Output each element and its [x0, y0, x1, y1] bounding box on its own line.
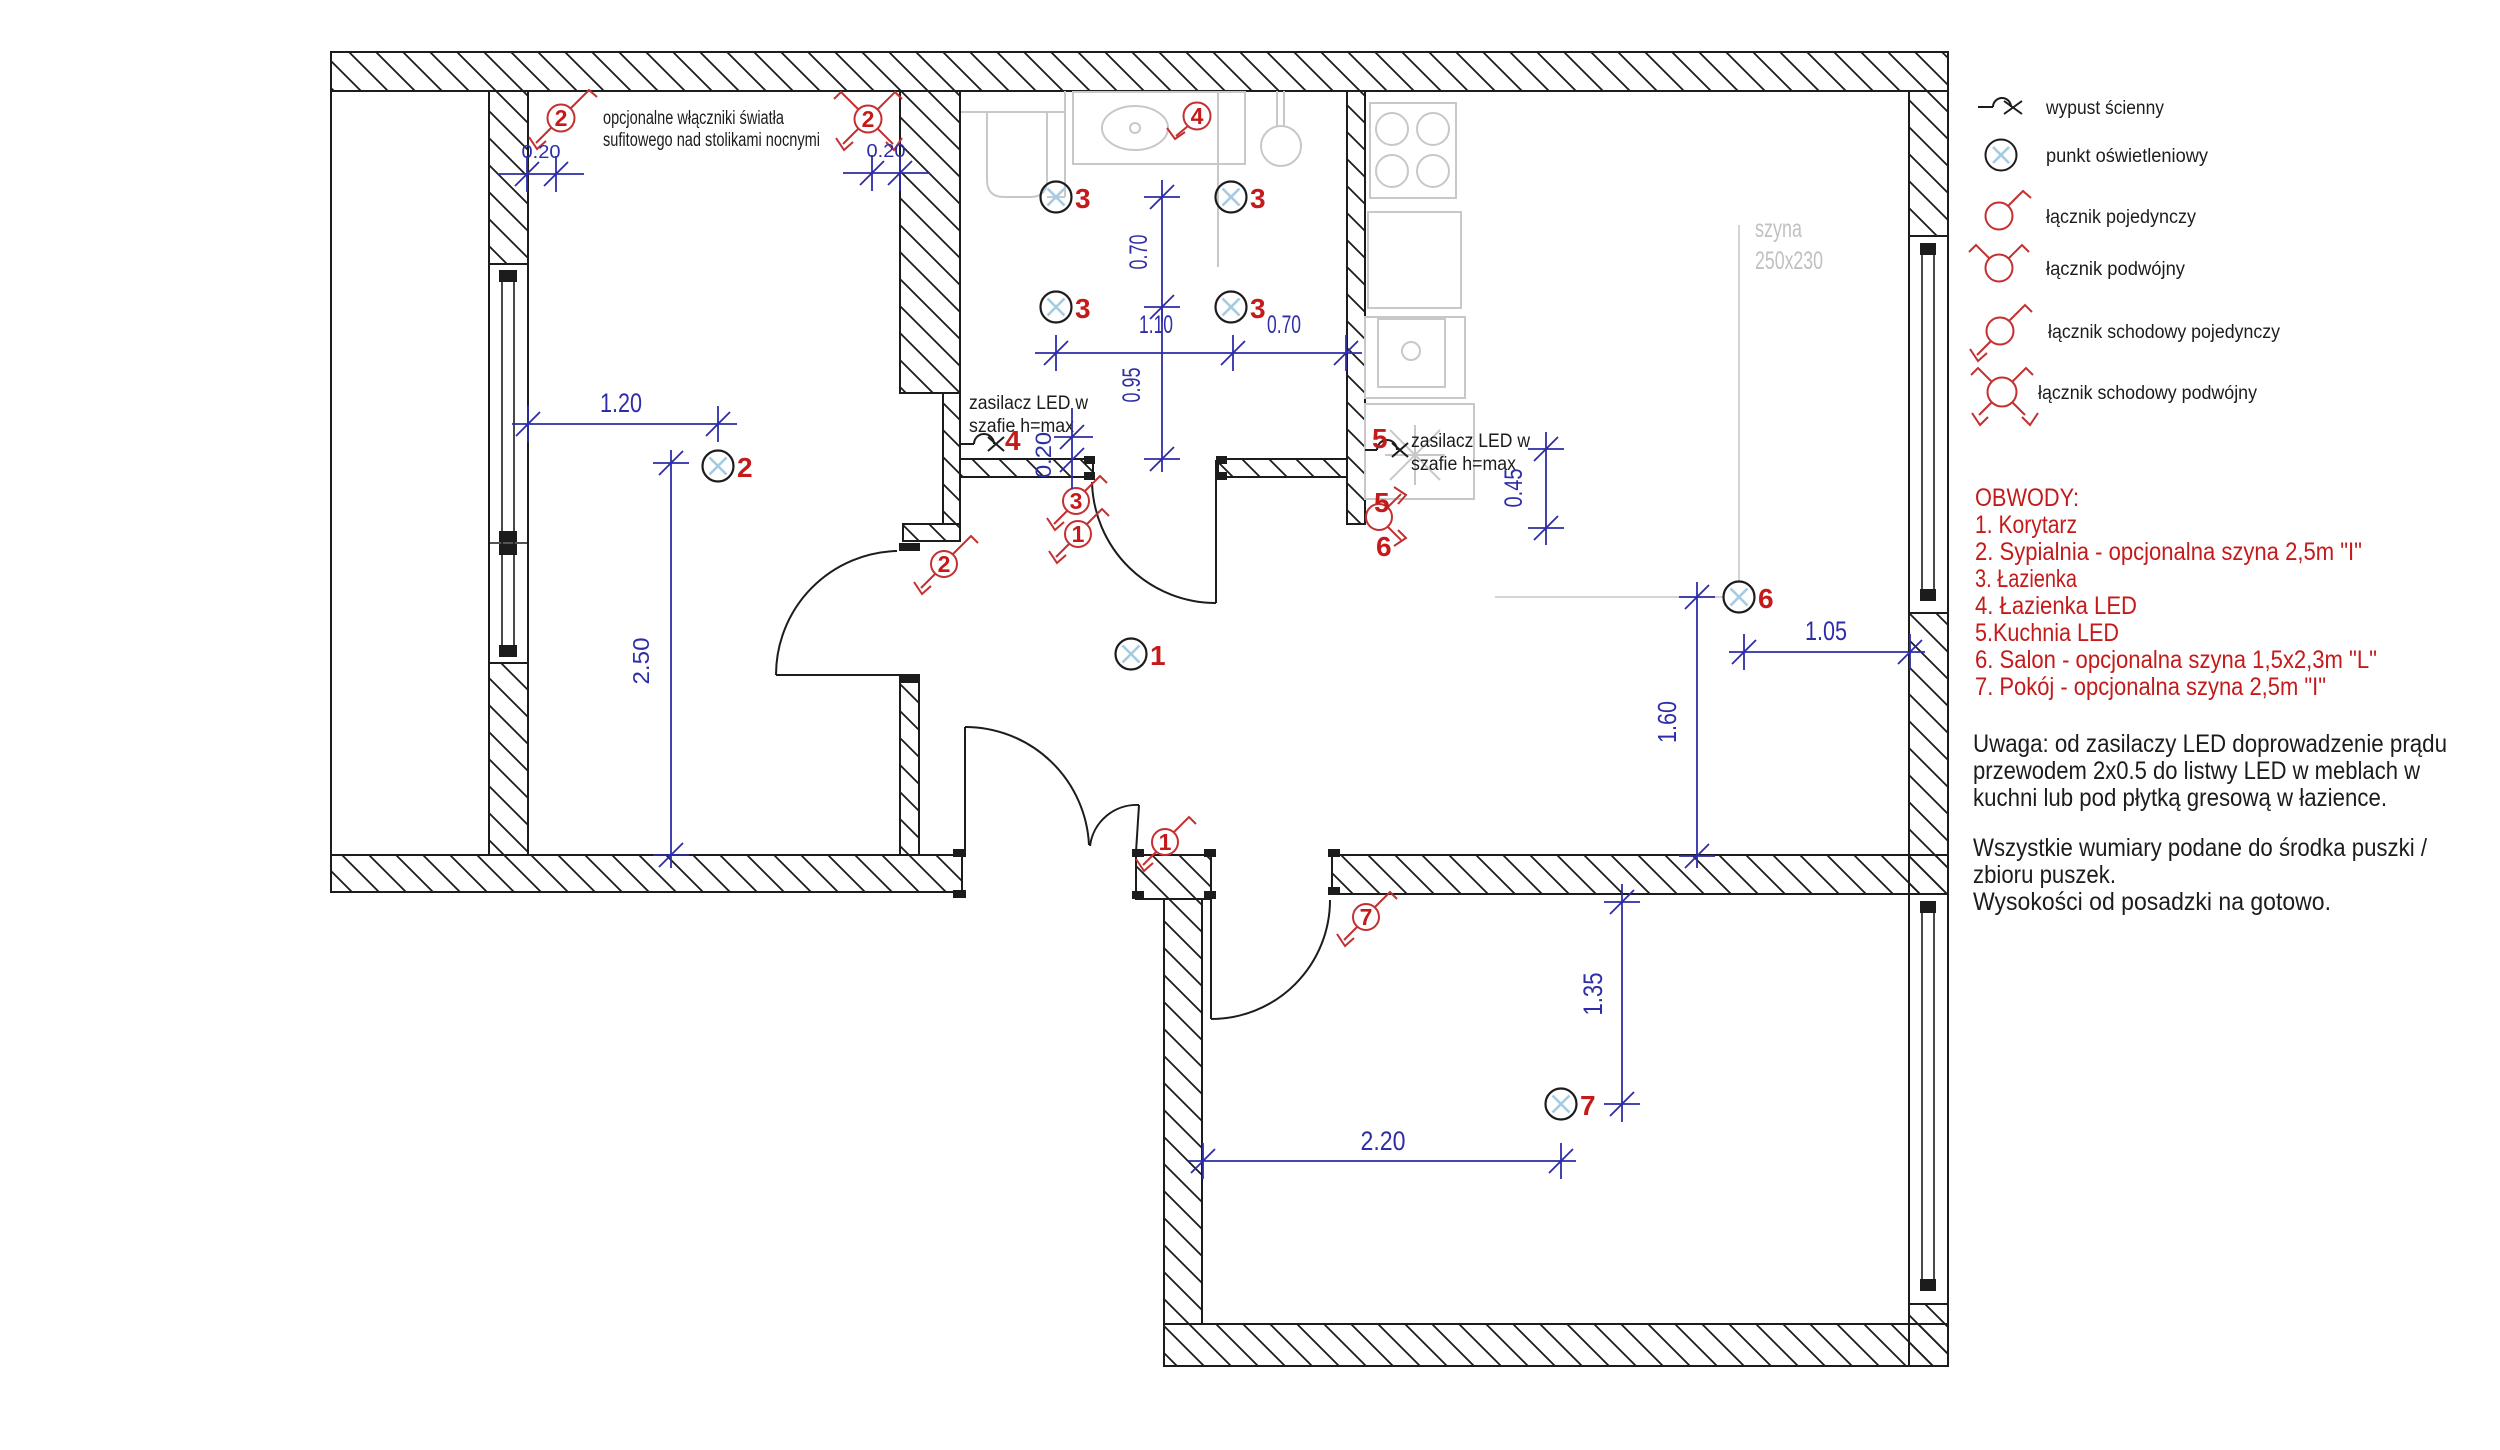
light 1 corridor	[1116, 639, 1147, 670]
light 2 bedroom	[703, 451, 734, 482]
svg-text:0.70: 0.70	[1267, 311, 1301, 339]
hob burner 4	[1417, 155, 1449, 187]
OBWODY red list	[1975, 484, 2377, 701]
legend wypust symbol	[1978, 106, 1993, 108]
wall bedroom step	[903, 524, 960, 541]
light 3 bathroom c	[1041, 292, 1072, 323]
dim 1.35 pokoj vertical	[1604, 884, 1640, 1122]
kitchen lower cabinet	[1365, 404, 1474, 499]
toilet cistern	[961, 91, 1065, 197]
light X 3a	[1048, 189, 1065, 206]
legend punkt symbol	[1986, 140, 2017, 171]
svg-text:3. Łazienka: 3. Łazienka	[1975, 565, 2077, 593]
jamb bedroom door bottom	[899, 675, 920, 683]
wall bathroom bottom left	[960, 459, 1093, 477]
svg-text:7: 7	[1580, 1090, 1596, 1121]
svg-text:3: 3	[1250, 293, 1266, 324]
light X 3c	[1048, 299, 1065, 316]
outer boundary left line	[330, 52, 332, 892]
WINDOWS	[489, 236, 1948, 1304]
svg-text:łącznik schodowy podwójny: łącznik schodowy podwójny	[2038, 383, 2257, 404]
door corridor small leaf	[1136, 805, 1139, 852]
light 3 bathroom b	[1216, 182, 1247, 213]
svg-text:OBWODY:: OBWODY:	[1975, 484, 2079, 512]
wall bedroom right narrow	[943, 393, 960, 524]
switch 7 pokoj	[1337, 892, 1397, 946]
hob burner 2	[1417, 113, 1449, 145]
dim 1.60 salon vertical	[1679, 582, 1715, 868]
svg-text:0.20: 0.20	[867, 141, 906, 161]
szyna rail L	[1495, 225, 1739, 597]
svg-text:2: 2	[737, 452, 753, 483]
BLACK ANNOTATION TEXTS	[603, 108, 1530, 475]
shower partition line	[1217, 91, 1219, 267]
svg-text:7: 7	[1360, 904, 1373, 930]
wall corridor thin	[900, 675, 919, 855]
kitchen hob rect	[1370, 103, 1456, 198]
kitchen cabinet	[1368, 212, 1461, 308]
svg-text:zbioru puszek.: zbioru puszek.	[1973, 861, 2116, 889]
svg-text:łącznik pojedynczy: łącznik pojedynczy	[2046, 207, 2196, 228]
light 3 bathroom a	[1041, 182, 1072, 213]
svg-text:4. Łazienka LED: 4. Łazienka LED	[1975, 592, 2137, 620]
kitchen sink inner	[1378, 319, 1445, 387]
dim 1.20 line	[512, 406, 737, 442]
svg-text:2.50: 2.50	[628, 638, 654, 685]
svg-text:2: 2	[862, 106, 875, 132]
jamb corridor piece right	[1204, 849, 1216, 857]
switch 2 at bedroom door (schodowy pojedynczy)	[914, 536, 978, 594]
svg-text:0.45: 0.45	[1500, 469, 1528, 508]
dim 0.95 bath vertical	[1144, 307, 1180, 472]
svg-text:2.20: 2.20	[1361, 1126, 1406, 1156]
dim 0.20 bedroom left line	[498, 156, 584, 192]
wall bedroom right wide	[900, 91, 960, 393]
szyna text	[1755, 215, 1823, 275]
svg-text:1: 1	[1150, 640, 1166, 671]
svg-text:Uwaga: od zasilaczy LED doprow: Uwaga: od zasilaczy LED doprowadzenie pr…	[1973, 730, 2447, 758]
legend lacznik schodowy pojedynczy	[1987, 318, 2014, 345]
wall piece corridor	[1136, 855, 1211, 899]
DOORS	[776, 460, 1330, 1019]
jamb bathroom door right	[1216, 456, 1227, 464]
svg-text:sufitowego nad stolikami nocny: sufitowego nad stolikami nocnymi	[603, 130, 820, 151]
wall salon bottom band	[1332, 855, 1948, 894]
svg-text:250x230: 250x230	[1755, 247, 1823, 275]
jamb bathroom door left	[1084, 456, 1095, 464]
svg-text:1. Korytarz: 1. Korytarz	[1975, 511, 2077, 539]
wall pokoj bottom	[1164, 1324, 1948, 1366]
BLUE DIMENSIONS	[498, 155, 1925, 1179]
legend lacznik schodowy podwojny	[1988, 378, 2017, 407]
svg-text:6: 6	[1376, 531, 1392, 562]
door bathroom leaf	[1215, 460, 1217, 603]
svg-text:1.05: 1.05	[1805, 616, 1847, 646]
red circled numbers text	[555, 103, 1373, 930]
svg-text:1.10: 1.10	[1139, 311, 1173, 339]
svg-text:0.20: 0.20	[1031, 432, 1056, 478]
svg-text:3: 3	[1070, 488, 1083, 514]
washbasin counter	[1073, 92, 1245, 164]
door bedroom leaf	[776, 674, 900, 676]
switch 1 corridor (pojedynczy)	[1049, 509, 1109, 563]
WALLS	[331, 52, 1948, 1366]
svg-text:1.20: 1.20	[600, 388, 642, 418]
svg-text:7. Pokój - opcjonalna szyna 2,: 7. Pokój - opcjonalna szyna 2,5m "I"	[1975, 673, 2326, 701]
switch circled 4 bathroom	[1167, 103, 1211, 140]
window pokoj right	[1909, 894, 1948, 1304]
window salon right	[1909, 236, 1948, 613]
DOOR JAMB CAPS	[899, 456, 1340, 899]
wall bedroom left lower	[489, 663, 528, 855]
dim 0.20 bedroom right line	[843, 155, 930, 191]
washbasin drain	[1130, 123, 1140, 133]
wall bottom-left band	[331, 855, 962, 892]
svg-text:2: 2	[555, 105, 568, 131]
kitchen sink outer	[1365, 317, 1465, 398]
red plain labels	[1005, 423, 1392, 562]
wall right upper	[1909, 91, 1948, 236]
door corridor small arc	[1090, 805, 1139, 846]
svg-text:1: 1	[1159, 829, 1172, 855]
switch 3 corridor (pojedynczy)	[1047, 476, 1107, 530]
door pokoj leaf	[1210, 900, 1212, 1019]
legend punkt X	[1993, 147, 2009, 163]
RED SWITCH SYMBOLS	[529, 90, 1406, 946]
switch 2 bedroom top-right (schodowy podwojny)	[834, 92, 902, 150]
svg-text:kuchni lub pod płytką gresową: kuchni lub pod płytką gresową w łazience…	[1973, 784, 2387, 812]
svg-text:zasilacz LED w: zasilacz LED w	[1411, 431, 1530, 452]
pendant lamp	[1261, 126, 1301, 166]
door corridor leaf	[964, 727, 966, 851]
jamb salon band start	[1328, 849, 1340, 857]
svg-text:0.95: 0.95	[1118, 368, 1146, 403]
zasilacz star kitchen	[1385, 425, 1445, 485]
toilet bowl	[987, 112, 1047, 197]
kitchen sink drain	[1402, 342, 1420, 360]
legend lacznik podwojny	[1986, 255, 2013, 282]
svg-text:5: 5	[1372, 423, 1388, 454]
dim 0.45 kitchen vertical	[1528, 432, 1564, 545]
dim 1.10 / 0.70 horizontal	[1035, 335, 1362, 371]
dim 1.05 salon	[1729, 634, 1925, 670]
svg-text:2: 2	[938, 551, 951, 577]
svg-text:opcjonalne włączniki światła: opcjonalne włączniki światła	[603, 108, 784, 129]
svg-text:6: 6	[1758, 583, 1774, 614]
light X 3b	[1223, 189, 1240, 206]
jamb bedroom band end	[953, 849, 966, 857]
switch 1 near pokoj door	[1136, 817, 1196, 871]
light X 2	[710, 458, 727, 475]
light X 7	[1553, 1096, 1570, 1113]
LEGEND	[1978, 98, 2022, 171]
BLACK WALL OUTLET SYMBOLS (wypust)	[960, 434, 1408, 457]
svg-text:wypust ścienny: wypust ścienny	[2045, 98, 2164, 119]
light X 6	[1731, 589, 1748, 606]
light 3 bathroom d	[1216, 292, 1247, 323]
svg-text:2. Sypialnia - opcjonalna szyn: 2. Sypialnia - opcjonalna szyna 2,5m "I"	[1975, 538, 2362, 566]
light X 3d	[1223, 299, 1240, 316]
svg-text:6. Salon - opcjonalna szyna 1,: 6. Salon - opcjonalna szyna 1,5x2,3m "L"	[1975, 646, 2377, 674]
wall right lower corner	[1909, 1304, 1948, 1366]
window bedroom left	[489, 264, 528, 663]
svg-text:3: 3	[1250, 183, 1266, 214]
wall bedroom left upper	[489, 91, 528, 264]
dim 2.50 line	[653, 450, 689, 868]
door bathroom arc	[1092, 482, 1216, 603]
svg-text:przewodem 2x0.5 do listwy LED: przewodem 2x0.5 do listwy LED w meblach …	[1973, 757, 2421, 785]
light X 1	[1123, 646, 1140, 663]
switch 2 bedroom top-left (schodowy pojedynczy)	[529, 90, 597, 149]
svg-text:łącznik schodowy pojedynczy: łącznik schodowy pojedynczy	[2048, 322, 2280, 343]
svg-text:5.Kuchnia LED: 5.Kuchnia LED	[1975, 619, 2119, 647]
dim 2.20 pokoj	[1188, 1143, 1576, 1179]
wall kitchen divider	[1347, 91, 1365, 524]
jamb bedroom door top	[899, 543, 920, 551]
svg-text:szyna: szyna	[1755, 215, 1802, 243]
red light number labels	[737, 183, 1774, 1121]
GRAY FIXTURES	[961, 91, 1739, 597]
door corridor arc	[965, 727, 1089, 845]
washbasin oval	[1102, 106, 1168, 150]
black notes right	[1973, 730, 2447, 916]
svg-text:3: 3	[1075, 293, 1091, 324]
dim 0.70 bath vertical	[1144, 180, 1180, 322]
light 7 pokoj	[1546, 1089, 1577, 1120]
svg-text:3: 3	[1075, 183, 1091, 214]
blue dim texts	[522, 141, 1848, 1156]
legend texts	[2038, 98, 2280, 404]
svg-text:1.35: 1.35	[1578, 973, 1608, 1016]
svg-text:Wszystkie wumiary podane do śr: Wszystkie wumiary podane do środka puszk…	[1973, 834, 2427, 862]
svg-text:szafie h=max: szafie h=max	[969, 416, 1074, 437]
wall bathroom bottom right	[1218, 459, 1347, 477]
svg-text:5: 5	[1374, 487, 1390, 518]
door bedroom arc	[776, 551, 897, 675]
jamb corridor piece left	[1132, 849, 1144, 857]
wypust 4 bathroom	[960, 443, 974, 445]
pendant lamp cord	[1276, 91, 1278, 127]
LIGHT POINTS	[703, 182, 1755, 1120]
svg-text:Wysokości od posadzki na gotow: Wysokości od posadzki na gotowo.	[1973, 888, 2331, 916]
hob burner 1	[1376, 113, 1408, 145]
svg-text:punkt oświetleniowy: punkt oświetleniowy	[2046, 146, 2208, 167]
svg-text:0.70: 0.70	[1125, 235, 1153, 270]
svg-text:4: 4	[1191, 103, 1204, 129]
light 6 salon	[1724, 582, 1755, 613]
wall top band	[331, 52, 1948, 91]
svg-text:zasilacz LED w: zasilacz LED w	[969, 393, 1088, 414]
svg-text:łącznik podwójny: łącznik podwójny	[2046, 259, 2185, 280]
dim 0.20 bath door vertical	[1054, 408, 1093, 489]
svg-text:1: 1	[1072, 521, 1085, 547]
wall right mid	[1909, 613, 1948, 894]
switch 5/6 kitchen (podwojny right)	[1366, 487, 1406, 546]
wall pokoj left	[1164, 899, 1202, 1324]
svg-text:1.60: 1.60	[1652, 701, 1682, 743]
wypust 5 kitchen	[1365, 449, 1377, 451]
hob burner 3	[1376, 155, 1408, 187]
svg-text:0.20: 0.20	[522, 142, 561, 162]
legend lacznik pojedynczy	[1986, 203, 2013, 230]
door pokoj arc	[1211, 900, 1330, 1019]
